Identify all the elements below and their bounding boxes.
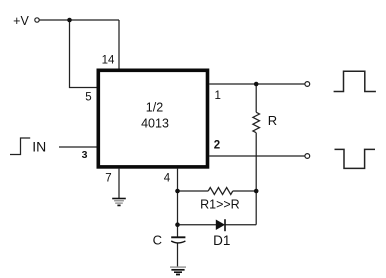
svg-text:4013: 4013 (141, 117, 169, 131)
svg-text:D1: D1 (213, 233, 230, 248)
svg-text:5: 5 (85, 92, 91, 104)
svg-text:1/2: 1/2 (146, 101, 163, 115)
svg-text:C: C (153, 233, 162, 248)
svg-text:+V: +V (13, 14, 29, 28)
svg-text:14: 14 (102, 55, 115, 67)
svg-text:2: 2 (214, 140, 220, 152)
svg-text:3: 3 (82, 149, 88, 161)
svg-text:7: 7 (105, 172, 111, 184)
svg-text:IN: IN (32, 139, 46, 155)
svg-text:1: 1 (214, 90, 220, 102)
svg-text:R1>>R: R1>>R (200, 197, 240, 211)
svg-text:4: 4 (164, 172, 171, 184)
svg-text:R: R (268, 113, 277, 128)
